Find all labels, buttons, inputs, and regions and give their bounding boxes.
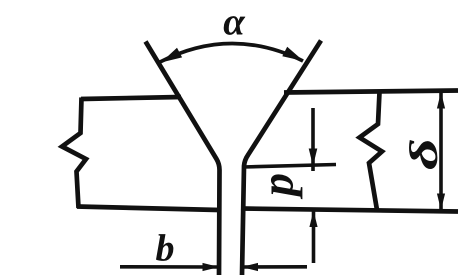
left plate break edge (zigzag) — [62, 98, 86, 209]
dimension line delta — [439, 92, 443, 210]
alpha dimension arc — [160, 43, 303, 62]
dimension line p upper segment — [311, 108, 315, 171]
b right arrowhead — [242, 263, 259, 271]
left bevel face and root edge — [146, 42, 220, 275]
dimension line p lower segment — [312, 210, 316, 263]
dimension line b left segment — [120, 265, 218, 269]
delta top arrowhead — [437, 92, 445, 109]
right plate break edge (zigzag) — [360, 92, 383, 210]
alpha arc left arrowhead — [161, 48, 182, 63]
label p (rotated) — [271, 174, 302, 199]
p upper arrowhead — [309, 149, 318, 167]
right plate bottom surface line — [241, 209, 458, 212]
right bevel face and root edge — [242, 41, 321, 275]
alpha arc right arrowhead — [282, 47, 303, 61]
dimension line b right segment — [242, 265, 307, 269]
delta bottom arrowhead — [437, 194, 445, 211]
root face extension line — [243, 165, 336, 168]
p lower arrowhead — [309, 211, 317, 228]
label delta (rotated) — [409, 140, 437, 169]
label b — [156, 234, 173, 261]
label alpha — [224, 16, 246, 35]
left plate top surface line — [81, 97, 181, 99]
left plate bottom surface line — [77, 207, 219, 211]
b left arrowhead — [203, 263, 220, 271]
right plate top surface line — [284, 91, 458, 93]
